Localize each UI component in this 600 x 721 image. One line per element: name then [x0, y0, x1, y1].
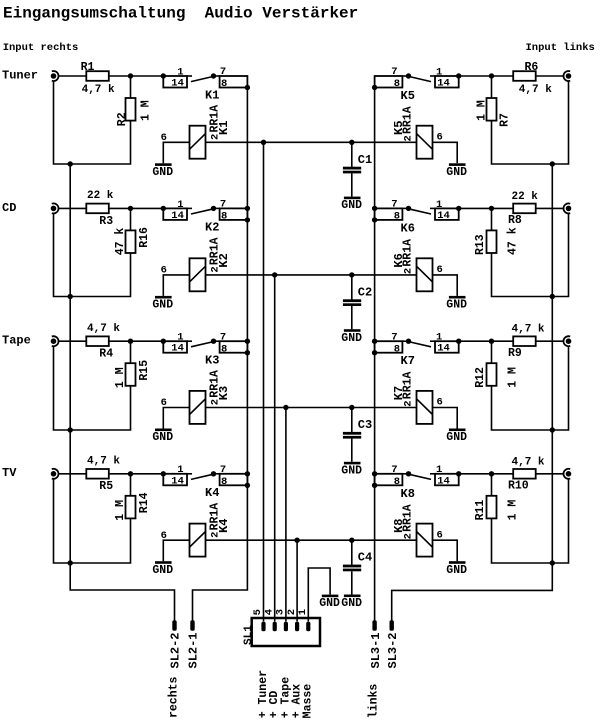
resistor R14: [114, 492, 151, 520]
junction dots: [68, 471, 556, 566]
svg-text:GND: GND: [319, 597, 340, 610]
svg-text:R2: R2: [116, 112, 129, 126]
wire: [491, 76, 493, 98]
wire coil pin6: [163, 275, 189, 296]
wire: [54, 346, 131, 430]
svg-text:K4: K4: [205, 486, 219, 500]
svg-text:K8: K8: [392, 518, 406, 532]
wire: [54, 81, 131, 164]
svg-text:3: 3: [275, 609, 287, 615]
wire: [130, 341, 132, 363]
wire: [109, 473, 164, 475]
svg-text:R5: R5: [99, 480, 113, 493]
wire: [130, 208, 132, 230]
connector pin SL3-2: [386, 620, 400, 668]
relay coil K8 (RR1A): [392, 504, 443, 556]
svg-text:2: 2: [403, 268, 415, 274]
svg-text:R11: R11: [474, 500, 487, 521]
wire coil pin6: [433, 540, 458, 561]
svg-text:TV: TV: [2, 466, 17, 480]
ground (coil K6): [446, 296, 467, 312]
wire: [491, 341, 493, 363]
connector Tuner left input jack: [563, 71, 571, 81]
svg-text:R12: R12: [474, 367, 487, 388]
svg-text:1 M: 1 M: [114, 367, 127, 388]
wire: [536, 75, 564, 77]
svg-text:R9: R9: [508, 347, 522, 360]
svg-text:C3: C3: [358, 418, 372, 432]
svg-text:GND: GND: [152, 299, 173, 312]
svg-text:7: 7: [220, 464, 226, 476]
relay coil K3 (RR1A): [161, 370, 231, 424]
wire: [59, 340, 87, 342]
svg-text:K3: K3: [217, 386, 231, 400]
connector TV right input jack: [51, 469, 59, 479]
relay coil K4 (RR1A): [161, 503, 231, 557]
wire: [492, 213, 569, 296]
svg-text:8: 8: [394, 78, 400, 90]
wire coil drive line: [206, 274, 417, 276]
relay contact K5: [375, 66, 459, 103]
svg-text:C1: C1: [358, 153, 372, 167]
relay coil K1 (RR1A): [161, 105, 231, 159]
ground (C4): [341, 595, 362, 611]
svg-text:2: 2: [403, 135, 415, 141]
SL1 pin 5: [252, 609, 265, 631]
svg-text:14: 14: [171, 343, 184, 355]
svg-text:K6: K6: [392, 253, 406, 267]
SL1 pin 2: [286, 609, 299, 631]
svg-text:GND: GND: [341, 597, 362, 610]
svg-text:7: 7: [220, 66, 226, 78]
connector pin SL3-1: [369, 620, 383, 668]
wire coil pin6: [433, 142, 458, 163]
SL1 pin 1: [297, 609, 310, 631]
svg-text:K2: K2: [217, 253, 231, 267]
wire: [130, 76, 132, 98]
svg-text:4,7 k: 4,7 k: [87, 456, 120, 468]
wire: [109, 207, 164, 209]
svg-text:CD: CD: [2, 201, 16, 215]
svg-text:SL3-2: SL3-2: [386, 632, 400, 668]
svg-text:R1: R1: [81, 61, 95, 74]
svg-text:8: 8: [221, 476, 227, 488]
svg-text:1: 1: [297, 609, 309, 615]
svg-text:8: 8: [221, 211, 227, 223]
svg-text:GND: GND: [152, 431, 173, 444]
wire coil pin6: [433, 408, 458, 429]
wire Masse (pin 1) to ground: [308, 568, 330, 622]
resistor R2: [116, 98, 152, 126]
connector TV left input jack: [563, 469, 571, 479]
svg-text:4: 4: [263, 609, 275, 615]
svg-text:2: 2: [403, 400, 415, 406]
relay coil K7 (RR1A): [392, 371, 443, 423]
svg-text:Tuner: Tuner: [2, 68, 38, 82]
wire: [130, 474, 132, 496]
relay contact K6: [375, 199, 459, 236]
resistor R13: [474, 227, 519, 255]
svg-text:4,7 k: 4,7 k: [82, 84, 115, 96]
svg-text:K7: K7: [401, 354, 415, 368]
capacitor C3: [343, 408, 372, 462]
svg-text:K1: K1: [205, 88, 219, 102]
svg-text:K7: K7: [392, 386, 406, 400]
ground (Masse pin): [319, 595, 340, 611]
svg-text:K1: K1: [217, 121, 231, 135]
svg-text:14: 14: [171, 210, 184, 222]
svg-text:8: 8: [221, 343, 227, 355]
svg-text:GND: GND: [341, 332, 362, 345]
ground (C2): [341, 329, 362, 345]
wire relay drive bus pin 2: [296, 540, 298, 621]
SL1 pin 3: [275, 609, 288, 631]
svg-text:links: links: [367, 684, 380, 719]
wire: [492, 81, 569, 164]
wire relay drive bus pin 3: [285, 408, 287, 622]
svg-text:1 M: 1 M: [114, 500, 127, 521]
svg-text:K2: K2: [205, 221, 219, 235]
resistor R8: [508, 191, 538, 227]
wire coil drive line: [206, 141, 417, 143]
resistor R4: [86, 323, 120, 361]
svg-text:Masse: Masse: [302, 684, 315, 719]
resistor R15: [114, 360, 151, 388]
svg-text:R14: R14: [138, 492, 151, 513]
svg-text:1 M: 1 M: [506, 367, 519, 388]
svg-text:R15: R15: [138, 360, 151, 381]
svg-text:1 M: 1 M: [506, 500, 519, 521]
svg-text:R13: R13: [474, 234, 487, 255]
capacitor C1: [343, 142, 372, 196]
svg-text:SL3-1: SL3-1: [369, 632, 383, 668]
svg-text:K5: K5: [392, 121, 406, 135]
wire: [492, 346, 569, 430]
svg-text:8: 8: [394, 343, 400, 355]
connector CD right input jack: [51, 203, 59, 213]
wire: [54, 479, 131, 563]
svg-text:SL1: SL1: [243, 625, 255, 645]
svg-text:GND: GND: [152, 564, 173, 577]
ground (C3): [341, 462, 362, 478]
connector SL1: [243, 618, 320, 646]
wire ground bus left channel (to SL3-2): [392, 164, 553, 621]
svg-text:14: 14: [437, 343, 450, 355]
svg-text:7: 7: [391, 464, 397, 476]
svg-text:22 k: 22 k: [512, 191, 539, 203]
svg-text:GND: GND: [341, 199, 362, 212]
relay contact K8: [375, 464, 459, 501]
svg-text:SL2-1: SL2-1: [187, 632, 201, 668]
svg-text:7: 7: [220, 331, 226, 343]
wire coil pin6: [433, 275, 458, 296]
relay contact K3: [163, 331, 247, 367]
svg-text:7: 7: [391, 331, 397, 343]
connector CD left input jack: [563, 203, 571, 213]
relay coil K2 (RR1A): [161, 237, 231, 291]
wire: [492, 479, 569, 563]
svg-text:K8: K8: [401, 487, 415, 501]
capacitor C4: [343, 540, 372, 594]
connector Tuner right input jack: [51, 71, 59, 81]
svg-text:GND: GND: [446, 166, 467, 179]
wire: [59, 207, 87, 209]
resistor R11: [474, 496, 519, 521]
wire: [491, 208, 493, 230]
svg-text:GND: GND: [446, 431, 467, 444]
svg-text:8: 8: [394, 476, 400, 488]
wire: [536, 207, 564, 209]
svg-text:K6: K6: [401, 221, 415, 235]
wire: [459, 473, 514, 475]
svg-text:47 k: 47 k: [114, 228, 127, 256]
wire relay drive bus pin 4: [274, 275, 276, 622]
resistor R7: [475, 98, 511, 127]
relay coil K5 (RR1A): [392, 106, 443, 158]
svg-text:7: 7: [391, 199, 397, 211]
svg-text:8: 8: [394, 211, 400, 223]
resistor R6: [513, 61, 552, 96]
svg-text:C2: C2: [358, 285, 372, 299]
wire coil drive line: [206, 407, 417, 409]
svg-text:K5: K5: [401, 89, 415, 103]
resistor R1: [81, 61, 115, 96]
svg-text:2: 2: [403, 533, 415, 539]
wire: [109, 340, 164, 342]
wire coil pin6: [163, 408, 189, 429]
svg-text:1 M: 1 M: [475, 100, 488, 121]
junction dots: [68, 206, 556, 299]
wire: [59, 75, 87, 77]
connector pin SL2-1: [187, 620, 201, 668]
relay contact K4: [163, 464, 247, 500]
svg-text:R8: R8: [508, 214, 522, 227]
junction dots: [68, 73, 556, 166]
svg-text:22 k: 22 k: [87, 190, 114, 202]
wire output bus left channel (to SL3-1): [374, 88, 376, 621]
wire: [459, 340, 514, 342]
svg-text:R6: R6: [525, 61, 539, 74]
svg-text:5: 5: [252, 609, 264, 615]
wire: [54, 213, 131, 296]
wire: [536, 473, 564, 475]
svg-text:R4: R4: [99, 348, 113, 361]
svg-text:47 k: 47 k: [506, 227, 519, 255]
svg-text:SL2-2: SL2-2: [169, 632, 183, 668]
svg-text:K4: K4: [217, 518, 231, 532]
svg-text:4,7 k: 4,7 k: [512, 456, 545, 468]
wire: [459, 75, 514, 77]
svg-text:Eingangsumschaltung Audio Ver: Eingangsumschaltung Audio Verstärker: [3, 5, 358, 23]
wire coil pin6: [163, 540, 189, 561]
svg-text:Input rechts: Input rechts: [3, 42, 79, 54]
relay contact K1: [163, 66, 247, 102]
svg-text:GND: GND: [446, 299, 467, 312]
ground (coil K2): [152, 296, 173, 312]
ground (coil K8): [446, 561, 467, 577]
svg-text:GND: GND: [152, 166, 173, 179]
wire relay drive bus pin 5: [263, 142, 265, 621]
wire: [491, 474, 493, 496]
wire: [459, 207, 514, 209]
svg-text:Input links: Input links: [526, 42, 595, 54]
svg-text:14: 14: [437, 475, 450, 487]
ground (coil K4): [152, 561, 173, 577]
SL1 pin 4: [263, 609, 276, 631]
svg-text:R7: R7: [498, 113, 511, 127]
svg-text:R10: R10: [508, 480, 529, 493]
svg-text:C4: C4: [358, 551, 372, 565]
connector Tape right input jack: [51, 336, 59, 346]
relay coil K6 (RR1A): [392, 239, 443, 291]
resistor R16: [114, 227, 151, 255]
svg-text:2: 2: [286, 609, 298, 615]
ground (C1): [341, 197, 362, 213]
wire output bus right channel (to SL2-1): [193, 88, 248, 621]
svg-text:R3: R3: [99, 215, 113, 228]
svg-text:14: 14: [437, 210, 450, 222]
svg-text:7: 7: [220, 199, 226, 211]
svg-text:GND: GND: [341, 464, 362, 477]
svg-text:14: 14: [171, 475, 184, 487]
junction dots: [68, 339, 556, 433]
resistor R5: [86, 456, 120, 494]
ground (coil K7): [446, 429, 467, 445]
resistor R9: [508, 324, 545, 360]
svg-text:7: 7: [391, 66, 397, 78]
ground (coil K5): [446, 163, 467, 179]
svg-text:4,7 k: 4,7 k: [519, 84, 552, 96]
svg-text:Tape: Tape: [2, 334, 31, 348]
svg-text:4,7 k: 4,7 k: [87, 323, 120, 335]
capacitor C2: [343, 275, 372, 329]
relay contact K2: [163, 199, 247, 235]
svg-text:K3: K3: [205, 354, 219, 368]
svg-text:4,7 k: 4,7 k: [512, 324, 545, 336]
relay contact K7: [375, 331, 459, 368]
svg-text:GND: GND: [446, 564, 467, 577]
wire ground bus right channel (to SL2-2): [70, 164, 174, 621]
ground (coil K1): [152, 163, 173, 179]
resistor R3: [86, 190, 114, 228]
svg-text:14: 14: [437, 78, 450, 90]
resistor R12: [474, 363, 519, 388]
ground (coil K3): [152, 429, 173, 445]
svg-text:rechts: rechts: [168, 676, 181, 718]
resistor R10: [508, 456, 545, 492]
wire: [109, 75, 164, 77]
svg-text:1 M: 1 M: [139, 100, 152, 121]
svg-text:14: 14: [171, 78, 184, 90]
wire coil drive line: [206, 539, 417, 541]
svg-text:8: 8: [221, 78, 227, 90]
connector pin SL2-2: [169, 620, 183, 668]
wire: [536, 340, 564, 342]
svg-text:R16: R16: [138, 227, 151, 248]
wire: [59, 473, 87, 475]
connector Tape left input jack: [563, 336, 571, 346]
wire coil pin6: [163, 142, 189, 163]
